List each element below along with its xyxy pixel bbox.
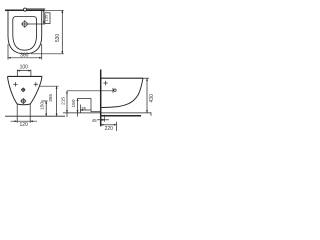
svg-text:360: 360 <box>20 53 29 59</box>
svg-text:120: 120 <box>20 122 29 128</box>
svg-text:35: 35 <box>81 106 86 111</box>
svg-text:150: 150 <box>40 102 46 110</box>
svg-text:355: 355 <box>48 94 54 102</box>
svg-text:430: 430 <box>149 94 155 103</box>
svg-text:45: 45 <box>92 118 97 123</box>
svg-text:100: 100 <box>20 65 29 71</box>
svg-text:215: 215 <box>61 97 67 105</box>
svg-text:530: 530 <box>55 34 61 43</box>
svg-text:220: 220 <box>105 126 114 132</box>
svg-text:190: 190 <box>71 99 77 107</box>
svg-text:135: 135 <box>44 14 49 22</box>
